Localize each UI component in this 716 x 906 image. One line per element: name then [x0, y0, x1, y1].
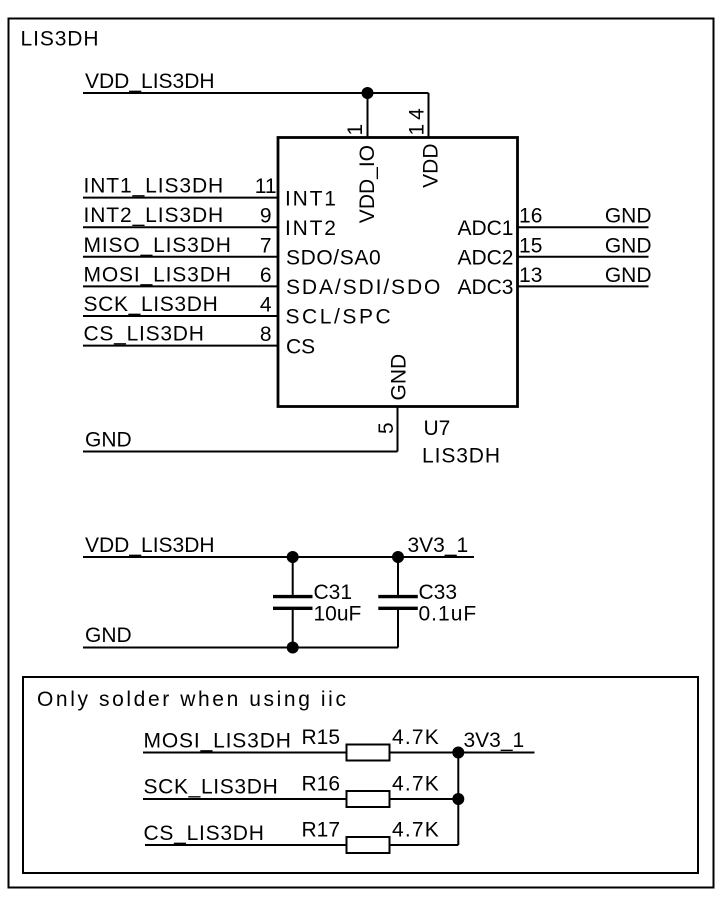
- svg-text:4: 4: [260, 294, 272, 317]
- capacitor C31: [292, 557, 294, 595]
- wire GND rail: [83, 647, 398, 649]
- svg-text:GND: GND: [605, 234, 652, 257]
- svg-text:VDD_LIS3DH: VDD_LIS3DH: [85, 70, 215, 93]
- svg-text:ADC3: ADC3: [457, 276, 513, 299]
- svg-text:15: 15: [519, 234, 542, 257]
- wire MOSI: [83, 285, 278, 287]
- svg-text:VDD: VDD: [420, 144, 443, 188]
- wire ADC3 to GND: [518, 285, 649, 287]
- svg-text:10uF: 10uF: [314, 603, 362, 626]
- svg-text:MOSI_LIS3DH: MOSI_LIS3DH: [144, 729, 292, 752]
- svg-text:13: 13: [519, 264, 542, 287]
- svg-text:5: 5: [375, 422, 398, 434]
- wire MOSI to R15: [143, 752, 347, 754]
- svg-text:C33: C33: [419, 581, 458, 604]
- svg-text:16: 16: [519, 205, 542, 228]
- svg-text:4.7K: 4.7K: [392, 819, 440, 842]
- svg-text:CS_LIS3DH: CS_LIS3DH: [84, 323, 205, 346]
- wire ADC2 to GND: [518, 256, 649, 258]
- svg-text:Only solder when using iic: Only solder when using iic: [37, 688, 349, 711]
- wire pin14 stub: [428, 93, 430, 138]
- wire GND bottom: [83, 451, 398, 453]
- wire 3V3 vertical bus: [457, 753, 459, 846]
- svg-text:4.7K: 4.7K: [392, 726, 440, 749]
- svg-text:MISO_LIS3DH: MISO_LIS3DH: [84, 234, 232, 257]
- svg-text:GND: GND: [605, 205, 652, 228]
- wire VDD_LIS3DH to pins 1 and 14: [83, 92, 429, 94]
- wire CS to R17: [145, 844, 347, 846]
- wire R17 to bus: [390, 844, 459, 846]
- svg-text:ADC2: ADC2: [457, 247, 513, 270]
- resistor R15: [347, 745, 390, 761]
- svg-text:8: 8: [260, 323, 272, 346]
- wire INT1: [83, 197, 278, 199]
- svg-text:GND: GND: [387, 354, 410, 401]
- junction R15/3V3: [452, 747, 464, 759]
- svg-text:7: 7: [260, 234, 272, 257]
- svg-text:LIS3DH: LIS3DH: [422, 445, 501, 468]
- svg-text:MOSI_LIS3DH: MOSI_LIS3DH: [84, 263, 232, 286]
- svg-text:INT1: INT1: [285, 187, 338, 210]
- junction at pin1/VDD: [362, 87, 374, 99]
- svg-text:GND: GND: [605, 264, 652, 287]
- svg-text:6: 6: [260, 264, 272, 287]
- junction C33 top: [392, 551, 404, 563]
- wire CS: [83, 345, 278, 347]
- junction C31 bottom: [287, 642, 299, 654]
- junction R16/3V3: [452, 793, 464, 805]
- wire VDD rail: [83, 556, 474, 558]
- svg-text:INT2: INT2: [285, 217, 338, 240]
- svg-text:SCK_LIS3DH: SCK_LIS3DH: [84, 293, 219, 316]
- svg-text:VDD_LIS3DH: VDD_LIS3DH: [85, 534, 215, 557]
- junction C31 top: [287, 551, 299, 563]
- svg-text:3V3_1: 3V3_1: [464, 729, 525, 752]
- svg-text:R17: R17: [302, 819, 341, 842]
- svg-text:VDD_IO: VDD_IO: [356, 145, 379, 223]
- capacitor C33: [397, 557, 399, 595]
- note box: [23, 677, 698, 873]
- svg-text:GND: GND: [85, 624, 132, 647]
- IC U7 LIS3DH body: [278, 138, 518, 407]
- svg-text:ADC1: ADC1: [457, 217, 513, 240]
- svg-text:INT1_LIS3DH: INT1_LIS3DH: [84, 175, 225, 198]
- svg-text:1: 1: [344, 124, 367, 136]
- svg-text:GND: GND: [85, 429, 132, 452]
- wire SCK: [83, 315, 278, 317]
- wire R16 to bus: [390, 798, 459, 800]
- svg-text:U7: U7: [424, 417, 451, 440]
- wire INT2: [83, 226, 278, 228]
- svg-text:0.1uF: 0.1uF: [419, 603, 478, 626]
- svg-text:11: 11: [255, 175, 277, 198]
- svg-text:SDO/SA0: SDO/SA0: [286, 247, 381, 270]
- resistor R16: [347, 791, 390, 807]
- svg-text:4.7K: 4.7K: [392, 773, 440, 796]
- wire pin5 stub: [397, 407, 399, 452]
- wire ADC1 to GND: [518, 226, 649, 228]
- svg-text:SDA/SDI/SDO: SDA/SDI/SDO: [286, 276, 442, 299]
- svg-text:3V3_1: 3V3_1: [408, 534, 469, 557]
- wire pin1 stub: [367, 93, 369, 138]
- wire SCK to R16: [143, 798, 347, 800]
- wire MISO: [83, 256, 278, 258]
- svg-text:C31: C31: [314, 581, 353, 604]
- wire R15 to 3V3_1: [390, 752, 535, 754]
- svg-text:CS: CS: [286, 335, 315, 358]
- svg-text:14: 14: [406, 104, 429, 135]
- svg-text:SCK_LIS3DH: SCK_LIS3DH: [144, 776, 279, 799]
- svg-text:R16: R16: [302, 773, 341, 796]
- svg-text:INT2_LIS3DH: INT2_LIS3DH: [84, 204, 225, 227]
- svg-text:9: 9: [260, 205, 272, 228]
- resistor R17: [347, 837, 390, 853]
- svg-text:LIS3DH: LIS3DH: [21, 28, 100, 51]
- svg-text:SCL/SPC: SCL/SPC: [286, 306, 394, 329]
- svg-text:R15: R15: [302, 726, 341, 749]
- svg-text:CS_LIS3DH: CS_LIS3DH: [144, 822, 265, 845]
